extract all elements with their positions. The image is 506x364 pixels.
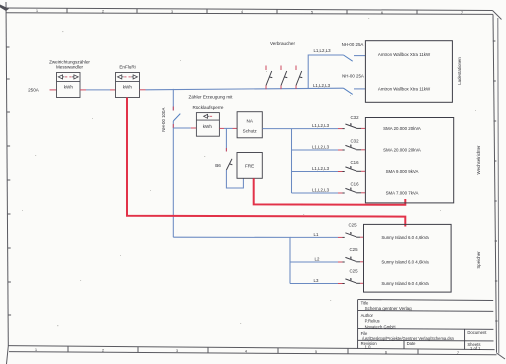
wire: storage feed from bus [173,237,290,283]
svg-text:Title: Title [361,301,369,306]
storage row 2 wire L2 [290,257,345,262]
box: charging stations group [365,41,452,103]
svg-text:C25: C25 [349,247,358,252]
label Speicher (vertical) [476,251,481,269]
svg-text:2: 2 [102,349,104,353]
svg-text:L3: L3 [314,278,319,283]
meter M2 EnFluRi [116,65,140,98]
box: battery storage group [364,224,452,292]
title block [358,300,494,350]
svg-text:3: 3 [176,349,178,353]
wire: M3 to NA Schutz [219,127,237,129]
svg-text:L1,L2,L3: L1,L2,L3 [312,145,330,150]
wire: service entry stub [50,89,57,91]
svg-text:SMA 20.000 20kVA: SMA 20.000 20kVA [383,148,421,153]
svg-text:L1,L2,L3: L1,L2,L3 [313,83,331,88]
svg-text:C16: C16 [350,160,359,165]
wire: main AC bus from M2 to wallbox fuse [140,88,344,90]
svg-text:kWh: kWh [64,85,74,90]
svg-text:7: 7 [461,11,463,15]
svg-text:kWh: kWh [203,124,213,129]
svg-text:Amtron Wallbox Xtra 11kW: Amtron Wallbox Xtra 11kW [378,52,431,57]
label Ladestationen (vertical) [457,57,462,85]
breaker C32 row 1 [345,115,365,128]
svg-text:C32: C32 [350,115,359,120]
svg-text:C25: C25 [348,223,357,228]
svg-text:Amtron Wallbox Xtra 11kW: Amtron Wallbox Xtra 11kW [378,87,431,92]
svg-text:FRE: FRE [245,164,254,169]
svg-text:File: File [361,331,368,336]
svg-text:P.Relius: P.Relius [365,319,380,324]
label 250A (service rating) [28,88,40,93]
svg-text:4: 4 [241,10,243,14]
svg-text:Messwandler: Messwandler [56,65,84,70]
svg-text:L1,L2,L3: L1,L2,L3 [312,123,330,128]
svg-text:SMA 9.000 9kVA: SMA 9.000 9kVA [386,169,419,174]
svg-text:Novatech GmbH: Novatech GmbH [365,324,396,329]
label Verbraucher [270,41,295,46]
svg-text:L1,L2,L3: L1,L2,L3 [312,188,330,193]
breaker C16 row 3 [345,160,365,171]
svg-text:L1: L1 [314,232,319,237]
svg-text:6: 6 [385,351,387,355]
svg-text:3: 3 [171,10,173,14]
svg-text:B6: B6 [215,163,221,168]
inverter row 3: wire L1,L2,L3 [292,166,345,171]
svg-text:1: 1 [36,9,38,13]
inverter row 4: wire L1,L2,L3 [292,188,345,193]
breaker C25 row 1 [345,223,363,238]
wire: generation branch NH-00 100A [173,89,180,237]
storage row 3 wire L3 [290,278,345,283]
inverter row 1: wire L1,L2,L3 [292,123,345,128]
meter M3 generation kWh [196,113,219,137]
relay U1 NA Schutz [237,112,262,138]
svg-text:NA: NA [247,118,254,123]
label L1,L2,L3 feed 2 [313,83,331,88]
label Wechselrichter (vertical) [476,145,481,174]
svg-text:Speicher: Speicher [476,251,481,269]
wire: EnFluRi control line (red) to Sunny Island [127,98,405,227]
svg-text:SMA 20.000 20kVA: SMA 20.000 20kVA [383,126,421,131]
svg-text:Rücklaufsperre: Rücklaufsperre [193,105,224,110]
svg-text:1.0: 1.0 [365,345,371,350]
svg-text:NH-00 100A: NH-00 100A [161,108,166,132]
wire: NA Schutz to inverter bus [262,128,291,130]
svg-text:Wechselrichter: Wechselrichter [476,145,481,174]
label B6 [215,163,221,168]
breaker B6 branch [226,128,243,188]
relay U2 FRE [237,153,262,179]
svg-text:6: 6 [381,11,383,15]
svg-text:Sunny Island 6.0 4,6kVa: Sunny Island 6.0 4,6kVa [381,235,429,240]
node: inverter distribution bus [291,129,293,193]
svg-text:Verbraucher: Verbraucher [270,41,295,46]
breaker C25 row 3 [345,269,363,284]
wire: riser to wallbox feed 1 [308,55,343,89]
svg-text:Document: Document [467,330,487,335]
bottom ruler ticks [67,346,69,352]
svg-text:C25: C25 [349,269,358,274]
top-left sheet edge wedge [0,5,9,12]
breaker C32 row 2 [345,139,365,150]
breaker consumer 1 [266,66,272,90]
label L1,L2,L3 feed 1 [313,48,331,53]
svg-text:5: 5 [311,11,313,15]
svg-text:Ladestationen: Ladestationen [457,57,462,85]
breaker consumer 3 [296,66,302,90]
svg-text:C16: C16 [350,182,359,187]
inverter row 2: wire L1,L2,L3 [292,145,345,150]
fuse NH-00 25A feed 1 [342,42,366,61]
svg-text:4: 4 [245,350,247,354]
svg-text:5: 5 [315,350,317,354]
svg-text:250A: 250A [28,88,40,93]
side ticks [7,46,10,48]
svg-text:Schema gentner Verlag: Schema gentner Verlag [365,306,413,311]
svg-text:Schutz: Schutz [243,128,258,133]
svg-text:NH-00 25A: NH-00 25A [342,74,364,79]
svg-text:Author: Author [361,313,374,318]
top ruler ticks [66,8,68,13]
label NH-00 100A (vertical) [161,108,166,132]
svg-text:L1,L2,L3: L1,L2,L3 [313,48,331,53]
breaker consumer 2 [281,66,287,90]
svg-text:Date: Date [407,341,417,346]
wire: to generation meter [173,127,196,129]
svg-text:EnFluRi: EnFluRi [119,65,135,70]
svg-text:SMA 7.000 7kVA: SMA 7.000 7kVA [386,191,419,196]
label Zaehler Erzeugung mit Ruecklaufsperre [189,95,234,110]
wire: FRE control line (red) to SMA 7.000 [254,178,406,205]
box: inverter group [365,118,453,203]
svg-text:L1,L2,L3: L1,L2,L3 [312,166,330,171]
svg-text:C32: C32 [350,139,359,144]
svg-text:Zähler Erzeugung mit: Zähler Erzeugung mit [189,95,234,100]
meter M1 Zweirichtungszaehler Messwandler [49,59,90,97]
wire: M1 to M2 [80,89,116,91]
breaker C16 row 4 [345,182,365,193]
svg-text:Sunny Island 6.0 4,6kVa: Sunny Island 6.0 4,6kVa [381,260,429,265]
svg-text:NH-00 25A: NH-00 25A [342,42,364,47]
breaker C25 row 2 [345,247,363,262]
svg-text:Sunny Island 6.0 4,6kVa: Sunny Island 6.0 4,6kVa [381,281,429,286]
storage row 1 wire L1 [290,232,345,237]
fuse NH-00 25A feed 2 [342,74,365,95]
svg-text:1: 1 [35,348,37,352]
svg-text:L2: L2 [315,257,320,262]
svg-text:kWh: kWh [123,85,133,90]
svg-text:2: 2 [102,10,104,14]
svg-text:1 of 1: 1 of 1 [470,346,481,351]
svg-text:7: 7 [457,351,459,355]
